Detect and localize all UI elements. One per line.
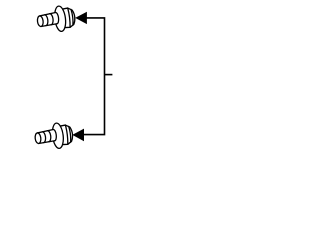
arrow to bottom bolt	[72, 129, 84, 142]
bolt B2 (bottom-left screw)	[34, 121, 74, 151]
arrow to top bolt	[75, 12, 87, 24]
wire: bracket leader line (top, vertical, bottom)	[84, 18, 105, 135]
bolt B1 (top-left screw)	[36, 4, 76, 34]
wire: middle tick	[105, 74, 113, 76]
